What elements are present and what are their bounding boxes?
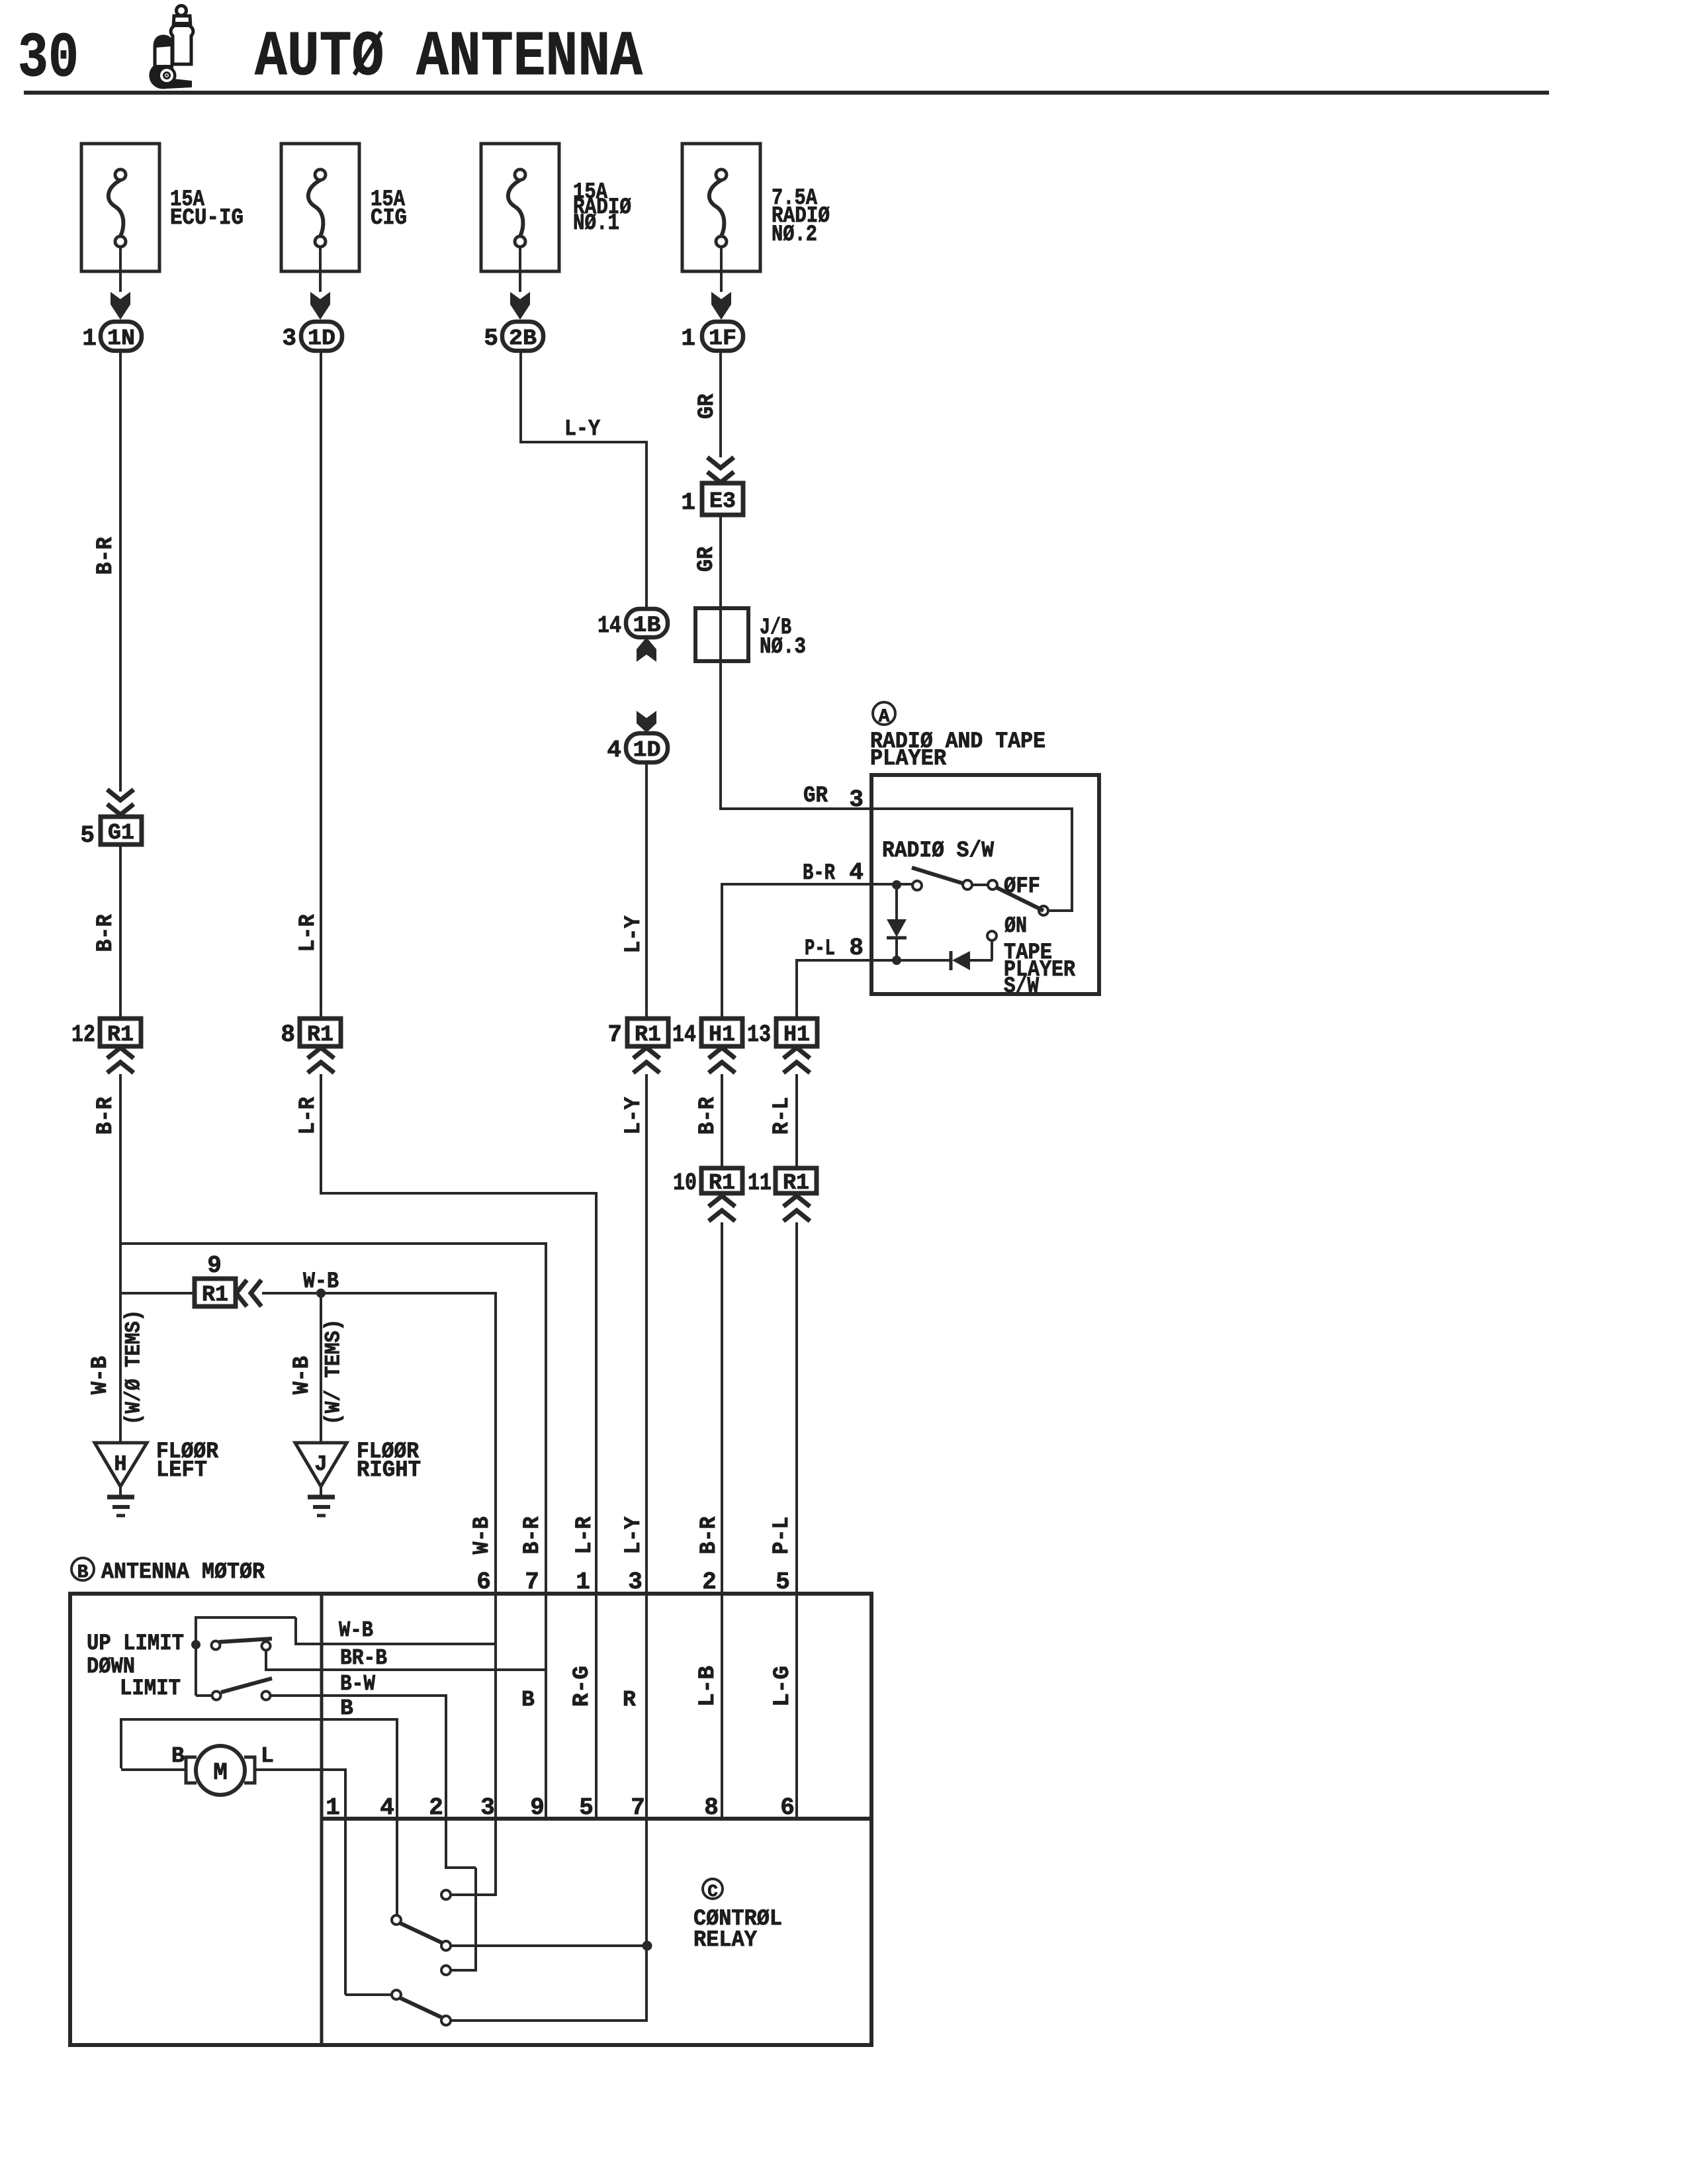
svg-text:J: J	[314, 1452, 327, 1477]
antenna motor box divider	[320, 1594, 324, 2045]
wire horizontal run at y=1879	[119, 1242, 546, 1245]
svg-text:L: L	[261, 1744, 274, 1768]
OFF contact	[1039, 906, 1048, 915]
svg-text:3: 3	[628, 1569, 643, 1596]
wire P-L from 11 R1 to relay pin 6	[795, 1222, 798, 1820]
svg-text:RELAY: RELAY	[693, 1928, 758, 1953]
ground J FLOOR RIGHT	[295, 1443, 347, 1486]
svg-text:NØ.3: NØ.3	[760, 635, 806, 660]
wire GR from 1F down	[719, 351, 722, 457]
svg-text:1: 1	[681, 325, 695, 352]
svg-text:P-L: P-L	[770, 1517, 795, 1555]
svg-text:9: 9	[530, 1794, 545, 1821]
wire L-Y down through motor box to relay pin 7	[645, 1074, 648, 2021]
wire L-Y from 1D to 7 R1	[645, 762, 648, 1019]
arrow out of 8 R1	[308, 1048, 334, 1058]
wire L-Y down to 14 1B	[645, 441, 648, 610]
antenna motor box outline	[70, 1594, 871, 2045]
svg-text:B-R: B-R	[93, 537, 118, 575]
svg-text:CIG: CIG	[371, 206, 407, 231]
svg-text:BR-B: BR-B	[340, 1646, 387, 1670]
arrow out of 13 H1	[783, 1048, 810, 1058]
svg-text:4: 4	[849, 859, 864, 886]
svg-text:L-R: L-R	[296, 1097, 321, 1135]
svg-text:8: 8	[281, 1021, 295, 1048]
relay pin 3 wire to contact	[451, 1893, 497, 1896]
svg-text:2: 2	[429, 1794, 443, 1821]
wire R-L from 13 H1 to 11 R1	[795, 1074, 798, 1169]
wire L-R from 1D down to 8 R1	[320, 351, 322, 1019]
svg-text:R-G: R-G	[570, 1666, 595, 1707]
svg-text:W-B: W-B	[470, 1517, 495, 1555]
svg-text:3: 3	[849, 786, 864, 813]
wire GR from J/B down then right to radio pin 3	[719, 807, 871, 810]
svg-text:1: 1	[681, 489, 695, 516]
svg-text:7: 7	[525, 1569, 539, 1596]
arrow up into 1B	[637, 637, 656, 662]
relay lower switch from pin 1	[345, 1993, 391, 1996]
svg-text:B-R: B-R	[697, 1516, 722, 1555]
svg-text:5: 5	[484, 325, 498, 352]
svg-text:12: 12	[71, 1021, 95, 1048]
svg-text:B-R: B-R	[520, 1516, 545, 1555]
svg-text:8: 8	[704, 1794, 719, 1821]
fuse 15A RADIO NO.1	[481, 144, 559, 271]
fuse 15A CIG	[281, 144, 359, 271]
svg-text:B-R: B-R	[695, 1097, 721, 1135]
wire B-W from down limit to relay pin 2	[271, 1694, 446, 1697]
svg-text:1: 1	[82, 325, 97, 352]
wire B-W down to relay pin 2 with jog	[445, 1694, 447, 1869]
wire jog right at y=668	[519, 441, 646, 443]
svg-text:NØ.2: NØ.2	[772, 222, 817, 248]
svg-text:14: 14	[598, 612, 621, 639]
svg-text:R1: R1	[635, 1023, 661, 1047]
svg-text:M: M	[213, 1759, 228, 1786]
component label circle A	[873, 702, 895, 725]
svg-text:RIGHT: RIGHT	[357, 1458, 421, 1483]
svg-text:10: 10	[673, 1169, 697, 1197]
svg-text:R: R	[623, 1688, 636, 1712]
wire right leg down to floor right ground	[320, 1293, 322, 1444]
svg-text:5: 5	[776, 1569, 790, 1596]
svg-text:1: 1	[576, 1569, 590, 1596]
svg-text:11: 11	[748, 1169, 772, 1197]
relay wire lower contact to pin 7 column	[451, 2019, 648, 2022]
svg-text:(W/ TEMS): (W/ TEMS)	[322, 1319, 346, 1425]
radio switch arm lower to OFF	[995, 887, 1044, 911]
svg-text:6: 6	[780, 1794, 795, 1821]
arrow out of 11 R1	[783, 1196, 810, 1206]
junction node	[316, 1289, 326, 1298]
svg-text:L-Y: L-Y	[564, 417, 601, 442]
svg-text:B: B	[171, 1744, 185, 1768]
svg-text:13: 13	[747, 1021, 771, 1048]
diode D2 horizontal	[950, 951, 953, 970]
svg-text:1D: 1D	[308, 326, 335, 351]
svg-text:GR: GR	[803, 784, 828, 809]
wire down to control relay pin 5	[595, 1192, 598, 1820]
radio switch arm upper	[912, 868, 963, 884]
svg-text:L-B: L-B	[695, 1666, 721, 1707]
wire B-R from G1 to 12 R1	[119, 844, 122, 1019]
svg-text:7: 7	[631, 1794, 645, 1821]
wire W-B horizontal	[262, 1292, 496, 1295]
arrow out of 7 R1	[633, 1048, 660, 1058]
svg-text:B: B	[77, 1563, 89, 1583]
svg-text:C: C	[707, 1882, 718, 1901]
svg-text:4: 4	[380, 1794, 394, 1821]
svg-text:R1: R1	[709, 1171, 735, 1195]
svg-text:1: 1	[326, 1794, 340, 1821]
wire P-L down to 13 H1	[795, 959, 798, 1019]
arrow down into 4 1D	[637, 711, 656, 733]
control relay top edge	[322, 1817, 871, 1821]
svg-text:L-R: L-R	[296, 914, 321, 952]
arrow out of 12 R1	[107, 1048, 134, 1058]
svg-text:H: H	[114, 1452, 126, 1477]
svg-text:B: B	[521, 1688, 535, 1712]
svg-text:L-Y: L-Y	[621, 1097, 646, 1135]
svg-text:UP LIMIT: UP LIMIT	[87, 1631, 184, 1657]
wire P-L radio pin 8	[797, 959, 951, 962]
svg-text:B-R: B-R	[93, 1097, 118, 1135]
svg-text:ØN: ØN	[1004, 914, 1027, 939]
svg-text:H1: H1	[709, 1023, 735, 1047]
radio inner wire pin 3 to OFF contact	[871, 807, 1072, 810]
wire W-B from up limit	[296, 1643, 496, 1645]
antenna motor M	[196, 1746, 245, 1795]
svg-text:1N: 1N	[107, 326, 135, 351]
up limit switch	[191, 1640, 200, 1649]
arrow into 9 R1	[236, 1280, 247, 1306]
svg-text:ANTENNA MØTØR: ANTENNA MØTØR	[101, 1560, 265, 1585]
svg-text:R1: R1	[783, 1171, 809, 1195]
svg-text:R1: R1	[107, 1023, 134, 1047]
wire BR-B from up limit contact to pin 9 column	[266, 1668, 546, 1671]
junction node	[892, 956, 901, 965]
svg-text:R-L: R-L	[770, 1097, 795, 1135]
svg-text:RADIØ S/W: RADIØ S/W	[882, 839, 995, 864]
svg-text:S/W: S/W	[1004, 974, 1040, 999]
svg-text:5: 5	[80, 822, 95, 849]
ground H FLOOR LEFT	[95, 1443, 147, 1486]
fuse 15A ECU-IG	[81, 144, 159, 271]
wire down to control relay pin 9	[545, 1242, 547, 1820]
svg-text:R1: R1	[307, 1023, 333, 1047]
svg-text:E3: E3	[709, 489, 736, 514]
svg-text:W-B: W-B	[88, 1356, 113, 1394]
svg-text:4: 4	[607, 737, 621, 764]
svg-text:6: 6	[476, 1569, 491, 1596]
wire horizontal run at y=1803	[320, 1192, 596, 1195]
relay upper switch from pin 4	[396, 1718, 398, 1916]
junction block J/B NO.3	[695, 608, 748, 661]
svg-text:1B: 1B	[633, 614, 661, 638]
diode D1 vertical	[895, 885, 898, 920]
svg-text:W-B: W-B	[290, 1356, 315, 1394]
svg-text:3: 3	[282, 325, 296, 352]
svg-text:LIMIT: LIMIT	[120, 1676, 181, 1702]
arrow into G1	[107, 790, 134, 800]
wire from 2B down	[519, 351, 522, 443]
svg-text:B-R: B-R	[93, 914, 118, 952]
component label circle C	[703, 1879, 723, 1899]
svg-text:L-Y: L-Y	[621, 915, 646, 954]
svg-text:(W/Ø TEMS): (W/Ø TEMS)	[122, 1310, 146, 1425]
wire B-R down to 14 H1	[721, 883, 723, 1019]
svg-text:5: 5	[579, 1794, 594, 1821]
svg-text:PLAYER: PLAYER	[870, 747, 947, 772]
svg-text:H1: H1	[783, 1023, 810, 1047]
radio switch pivot contact	[912, 881, 922, 890]
wire L-R from 8 R1 down then right	[320, 1074, 322, 1195]
relay wire contact to pin 7 column	[451, 1944, 647, 1947]
header rule	[24, 91, 1549, 95]
svg-text:2: 2	[702, 1569, 717, 1596]
svg-text:L-G: L-G	[770, 1666, 795, 1707]
wire B from motor to relay pin 4	[120, 1718, 122, 1768]
fuse 7.5A RADIO NO.2	[682, 144, 760, 271]
svg-text:AUTØ ANTENNA: AUTØ ANTENNA	[255, 21, 643, 93]
component label circle B	[71, 1558, 94, 1580]
tape player switch ON contact	[991, 941, 993, 960]
junction node	[892, 880, 901, 889]
svg-text:A: A	[879, 707, 890, 727]
svg-text:2B: 2B	[509, 326, 537, 351]
arrow out of 14 H1	[709, 1048, 735, 1058]
svg-text:3: 3	[480, 1794, 495, 1821]
auto antenna icon	[149, 6, 193, 89]
arrow out of 10 R1	[709, 1196, 735, 1206]
wire GR from E3 to J/B No.3	[719, 515, 722, 810]
wire W-B down to motor pin 6 and relay pin 3	[494, 1292, 497, 1895]
svg-text:14: 14	[672, 1021, 696, 1048]
wire left leg to floor ground	[120, 1292, 196, 1295]
wire B-R from 10 R1 to relay pin 8	[721, 1222, 723, 1820]
svg-text:W-B: W-B	[339, 1618, 373, 1643]
svg-text:NØ.1: NØ.1	[573, 211, 619, 236]
svg-text:P-L: P-L	[805, 936, 835, 962]
svg-text:8: 8	[849, 934, 864, 962]
wire B-R from 12 R1 down then right to relay pin 9 column	[119, 1074, 122, 1245]
svg-text:9: 9	[207, 1252, 222, 1279]
radio switch contacts	[963, 880, 972, 889]
svg-text:G1: G1	[108, 821, 134, 845]
arrow into E3	[707, 457, 734, 468]
svg-text:30: 30	[18, 23, 79, 95]
svg-text:B-R: B-R	[803, 861, 835, 886]
wire B-R radio pin 4	[722, 883, 913, 886]
svg-text:R1: R1	[202, 1283, 228, 1307]
motor terminal wires	[121, 1768, 186, 1771]
wire B-R from 1N down to G1	[119, 351, 122, 792]
down limit switch	[196, 1694, 212, 1697]
svg-text:GR: GR	[695, 393, 720, 419]
limit switch bracket	[195, 1616, 197, 1696]
svg-text:1F: 1F	[709, 326, 736, 351]
svg-text:L-Y: L-Y	[621, 1516, 646, 1555]
svg-text:ECU-IG: ECU-IG	[170, 206, 244, 231]
svg-text:1D: 1D	[633, 738, 661, 762]
wire from motor L to relay pin 1	[344, 1768, 347, 1995]
svg-text:GR: GR	[694, 546, 719, 572]
wire B-R from 14 H1 to 10 R1	[721, 1074, 723, 1169]
svg-text:7: 7	[607, 1021, 622, 1048]
svg-text:B-W: B-W	[340, 1672, 375, 1696]
svg-text:LEFT: LEFT	[156, 1458, 207, 1483]
svg-text:B: B	[340, 1696, 353, 1721]
radio and tape player box U-A	[871, 775, 1099, 994]
svg-text:L-R: L-R	[572, 1516, 598, 1555]
